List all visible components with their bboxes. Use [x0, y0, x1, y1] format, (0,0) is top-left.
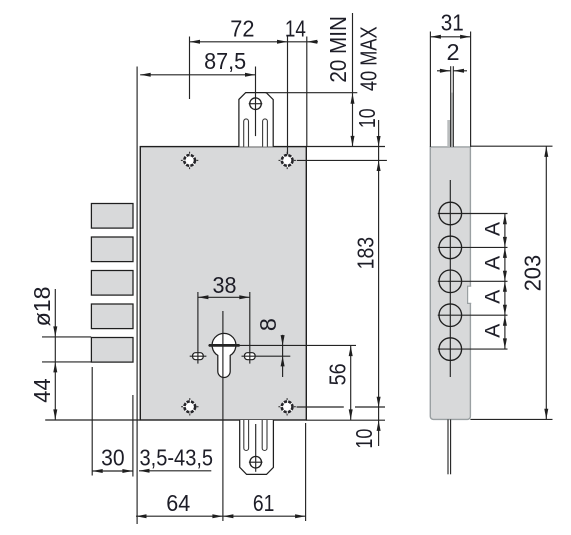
side hole 3	[438, 270, 508, 293]
svg-text:72: 72	[230, 15, 254, 41]
bottom tab slot right	[262, 420, 267, 451]
dimension 183	[352, 237, 380, 407]
deadbolt 5	[91, 338, 133, 363]
svg-text:A: A	[481, 222, 504, 236]
svg-text:64: 64	[166, 490, 190, 516]
svg-text:38: 38	[213, 272, 237, 298]
svg-text:14: 14	[285, 15, 306, 41]
faceplate line left	[136, 67, 138, 525]
svg-text:87,5: 87,5	[204, 48, 246, 74]
svg-text:10: 10	[354, 108, 380, 128]
dimension A spacings	[481, 214, 507, 350]
bottom tab hole	[250, 456, 262, 468]
euro cylinder keyhole	[212, 333, 236, 377]
svg-text:A: A	[481, 324, 504, 338]
svg-text:44: 44	[29, 378, 55, 402]
screw hole top-left	[181, 152, 198, 169]
faceplate front edge below body	[132, 395, 134, 477]
cylinder vertical centerline	[222, 311, 224, 521]
svg-text:A: A	[481, 290, 504, 304]
top rod (side view)	[447, 120, 450, 147]
dimension 31	[430, 10, 470, 147]
side plate notch	[468, 286, 472, 303]
svg-text:31: 31	[441, 10, 464, 36]
lock body (front view)	[140, 147, 306, 420]
dimension 72	[190, 15, 288, 154]
dimension 203	[470, 146, 552, 419]
svg-text:10: 10	[351, 429, 377, 449]
deadbolt 1	[91, 204, 133, 229]
svg-text:56: 56	[324, 363, 350, 385]
screw hole top-right	[279, 152, 296, 169]
side hole 4	[438, 304, 508, 327]
svg-text:61: 61	[253, 490, 275, 516]
dimension 61	[223, 490, 306, 518]
side hole 5	[438, 338, 508, 361]
deadbolt 2	[91, 237, 133, 262]
fixing hole ticks	[197, 292, 199, 364]
dimension o18	[29, 286, 91, 420]
fixing hole left of cylinder	[193, 353, 204, 360]
dimension 10 top right	[297, 108, 387, 446]
bottom tab slot left	[244, 420, 249, 450]
side hole 1	[438, 202, 508, 225]
svg-text:2: 2	[447, 39, 460, 65]
top rod tab	[239, 93, 273, 147]
top tab slot left	[244, 119, 249, 147]
svg-text:8: 8	[255, 318, 281, 331]
cylinder horizontal centerline	[208, 344, 356, 346]
top tab hole	[250, 98, 262, 110]
top tab centerline	[255, 67, 257, 137]
dimension 10 bottom right	[297, 407, 385, 449]
svg-text:ø18: ø18	[29, 286, 55, 326]
bottom tab centerline	[255, 424, 257, 472]
svg-text:40 MAX: 40 MAX	[356, 26, 382, 91]
side plate centerline	[449, 180, 451, 377]
dimension 87,5	[140, 48, 255, 77]
dimension 64	[136, 423, 306, 521]
svg-text:20 MIN: 20 MIN	[325, 16, 351, 83]
svg-text:183: 183	[352, 237, 378, 270]
dimension 14	[285, 15, 318, 146]
dimension 3,5-43,5	[139, 444, 213, 473]
svg-text:3,5-43,5: 3,5-43,5	[140, 444, 214, 470]
side hole 2	[438, 236, 508, 259]
deadbolt 4	[91, 304, 133, 329]
dimension 44	[29, 378, 140, 420]
svg-text:30: 30	[101, 444, 125, 470]
side view plate	[430, 147, 470, 420]
top tab slot right	[263, 119, 268, 147]
bottom rod (side view)	[447, 419, 449, 474]
screw hole bottom-left	[181, 398, 198, 415]
dimension 56	[324, 345, 352, 420]
svg-text:A: A	[481, 256, 504, 270]
deadbolt 3	[91, 271, 133, 296]
fixing hole right of cylinder	[245, 353, 256, 360]
dimension 30	[92, 367, 133, 476]
screw hole bottom-right	[278, 398, 295, 415]
svg-text:203: 203	[520, 255, 546, 292]
dimension 20 MIN / 40 MAX	[265, 13, 385, 147]
bottom rod tab	[240, 420, 274, 474]
dimension 2	[437, 39, 467, 73]
dimension 8	[255, 318, 285, 377]
dimension 38	[198, 272, 250, 300]
